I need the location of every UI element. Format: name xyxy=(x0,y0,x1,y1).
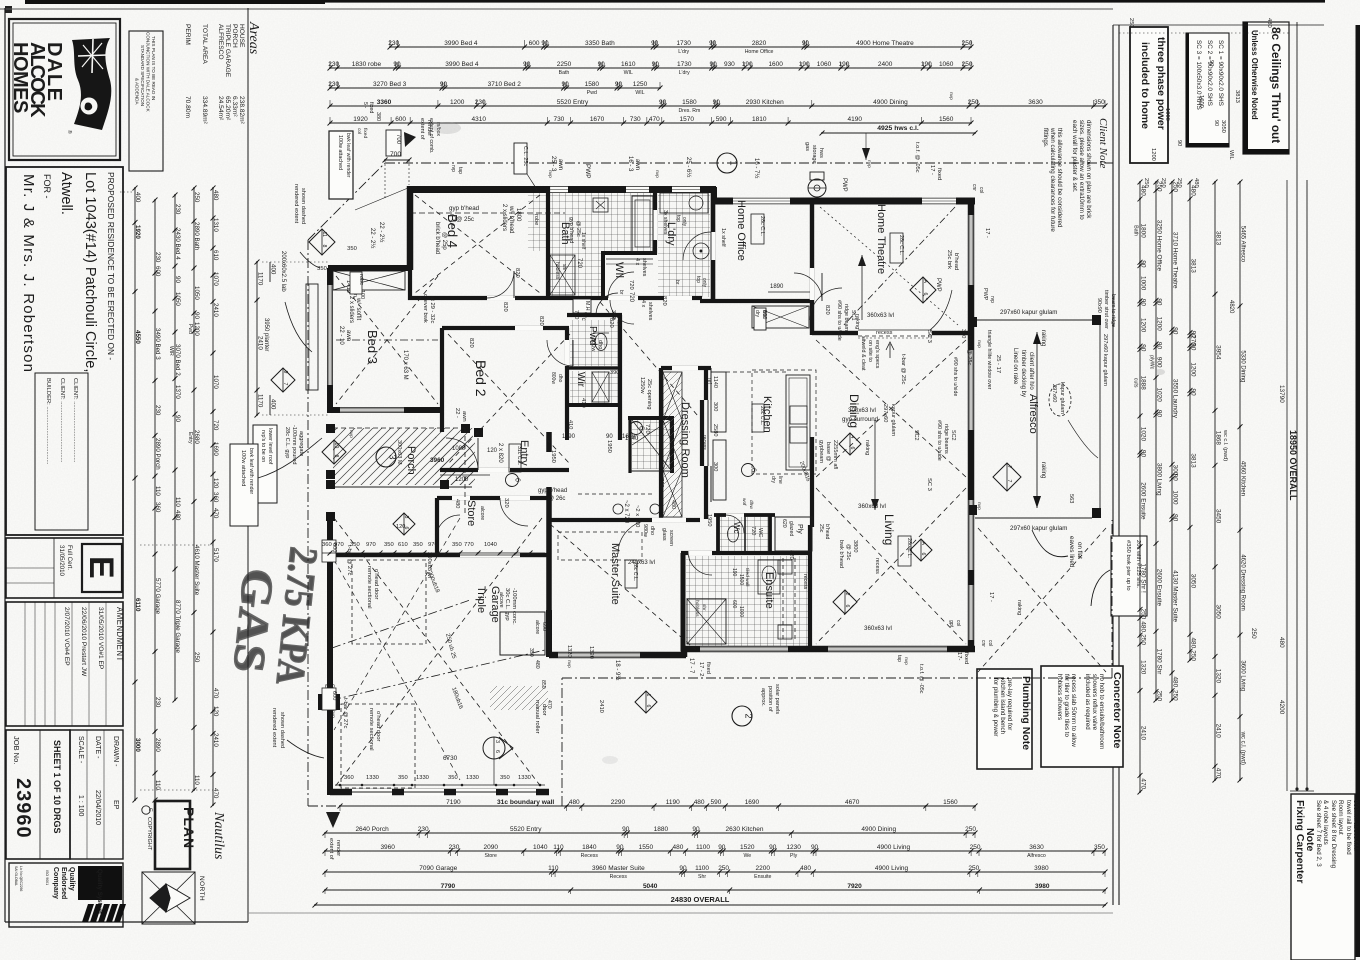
svg-text:230: 230 xyxy=(154,252,161,263)
svg-text:1: 1 xyxy=(645,694,651,697)
svg-text:90: 90 xyxy=(1172,514,1179,522)
tiles linen xyxy=(632,420,670,469)
window living bottom xyxy=(828,647,947,652)
svg-text:350: 350 xyxy=(413,542,423,548)
wall store left xyxy=(435,498,439,555)
svg-text:360x63 lvl: 360x63 lvl xyxy=(858,503,886,510)
svg-text:230: 230 xyxy=(174,204,181,215)
svg-text:600: 600 xyxy=(529,40,540,47)
svg-text:90: 90 xyxy=(1176,140,1182,146)
svg-text:this allowance should be consi: this allowance should be considered xyxy=(1056,128,1063,228)
svg-text:2 x sliders: 2 x sliders xyxy=(348,296,354,323)
svg-text:100w attached: 100w attached xyxy=(240,450,246,486)
svg-text:480: 480 xyxy=(694,799,705,806)
svg-text:towel rail to be fixed: towel rail to be fixed xyxy=(1345,800,1352,855)
svg-text:350: 350 xyxy=(452,542,462,548)
svg-text:110: 110 xyxy=(548,865,559,872)
svg-text:1610: 1610 xyxy=(621,61,636,68)
svg-text:470: 470 xyxy=(1215,768,1222,779)
svg-text:Client Note: Client Note xyxy=(1097,118,1109,169)
annot 600 boxed garage xyxy=(322,540,336,562)
svg-text:480: 480 xyxy=(534,660,540,669)
wall ho-ht divider xyxy=(810,201,814,335)
svg-text:PLAN: PLAN xyxy=(181,807,197,849)
svg-text:2600 Ensuite: 2600 Ensuite xyxy=(1156,569,1163,607)
svg-text:9: 9 xyxy=(282,371,288,374)
tiles laundry xyxy=(658,192,710,297)
svg-text:1000: 1000 xyxy=(1172,490,1179,505)
svg-text:nvp: nvp xyxy=(654,170,659,178)
svg-text:nvp: nvp xyxy=(866,160,871,168)
svg-text:t.o.f. @ -05c: t.o.f. @ -05c xyxy=(914,142,920,173)
door store xyxy=(500,498,528,526)
svg-text:1190: 1190 xyxy=(666,799,680,806)
svg-text:Full Cert.: Full Cert. xyxy=(66,545,73,570)
svg-text:Mr. J & Mrs. J. Robertson: Mr. J & Mrs. J. Robertson xyxy=(20,174,37,373)
svg-text:raking: raking xyxy=(1016,600,1022,615)
svg-text:ISO 9001: ISO 9001 xyxy=(45,870,49,885)
note box SC schedule xyxy=(1186,33,1229,147)
right dim col4 xyxy=(1189,182,1191,660)
svg-text:250: 250 xyxy=(193,652,200,663)
svg-text:28c C.L.: 28c C.L. xyxy=(759,216,765,236)
svg-text:1060: 1060 xyxy=(817,61,832,68)
svg-text:cnr: cnr xyxy=(980,640,986,647)
svg-text:4 x: 4 x xyxy=(640,300,646,307)
svg-text:nvp: nvp xyxy=(348,430,353,438)
svg-text:350: 350 xyxy=(1094,844,1105,851)
svg-text:350: 350 xyxy=(528,648,534,657)
svg-text:100w attached: 100w attached xyxy=(337,135,343,170)
window home theatre right xyxy=(969,215,974,285)
right dim col3 xyxy=(1171,182,1173,700)
svg-text:L’dry: L’dry xyxy=(678,49,689,55)
window living right2 xyxy=(969,585,974,640)
svg-text:22 - 10: 22 - 10 xyxy=(338,326,344,345)
svg-text:C.L. 25c: C.L. 25c xyxy=(522,146,528,166)
wall dressing left xyxy=(659,368,663,519)
svg-text:120: 120 xyxy=(212,478,219,489)
svg-text:client after h/o: client after h/o xyxy=(1028,352,1034,390)
svg-text:2090: 2090 xyxy=(483,844,498,851)
svg-text:L’dry: L’dry xyxy=(679,70,690,76)
svg-text:1580: 1580 xyxy=(585,81,600,88)
svg-text:110: 110 xyxy=(193,775,200,785)
svg-text:1550: 1550 xyxy=(639,844,654,851)
svg-text:1000: 1000 xyxy=(1164,108,1170,121)
master suite ceiling xyxy=(550,524,696,650)
bath vanity basin xyxy=(593,198,608,212)
svg-text:1868: 1868 xyxy=(1215,431,1222,446)
svg-text:DATE -: DATE - xyxy=(94,736,101,759)
svg-text:Room layout: Room layout xyxy=(1337,800,1344,835)
svg-text:22 - 2½: 22 - 2½ xyxy=(378,222,385,242)
svg-text:1250w: 1250w xyxy=(639,377,645,394)
svg-text:17-: 17- xyxy=(956,652,962,660)
svg-text:dry: dry xyxy=(770,476,776,483)
svg-text:2410: 2410 xyxy=(598,700,604,713)
porch bottom edge xyxy=(332,486,472,488)
svg-text:5170: 5170 xyxy=(212,548,219,562)
svg-text:3450: 3450 xyxy=(1215,509,1222,524)
stamp 2.75 KPA GAS xyxy=(223,540,327,687)
svg-text:590: 590 xyxy=(716,116,727,123)
svg-text:2890 Bath: 2890 Bath xyxy=(193,222,200,251)
annot garage beams xyxy=(426,571,440,594)
svg-text:eaves lined: eaves lined xyxy=(1068,536,1075,568)
svg-text:2 x sliders: 2 x sliders xyxy=(501,204,507,231)
svg-text:line: line xyxy=(777,476,783,484)
svg-text:970: 970 xyxy=(428,542,438,548)
svg-text:980w: 980w xyxy=(642,524,648,537)
wall pwd wir block xyxy=(567,313,622,317)
svg-text:recess: recess xyxy=(701,435,707,450)
svg-text:DRAWN -: DRAWN - xyxy=(112,736,119,767)
annot 100w attached box2 xyxy=(230,444,258,526)
svg-text:2430 Bed 4: 2430 Bed 4 xyxy=(174,228,181,260)
wc pan xyxy=(728,526,739,542)
svg-text:6: 6 xyxy=(849,447,855,450)
svg-text:480: 480 xyxy=(1190,637,1197,648)
svg-text:5465 Alfresco: 5465 Alfresco xyxy=(1240,226,1246,263)
svg-text:1200: 1200 xyxy=(1190,362,1197,377)
svg-text:1920: 1920 xyxy=(353,116,368,123)
svg-text:render: render xyxy=(335,840,341,856)
wall home theatre bottom xyxy=(812,331,973,335)
svg-text:1330: 1330 xyxy=(416,775,429,781)
svg-text:590: 590 xyxy=(711,799,722,806)
svg-text:25 - 6½: 25 - 6½ xyxy=(685,157,692,177)
svg-text:350: 350 xyxy=(350,542,360,548)
tiles wc xyxy=(720,517,769,552)
svg-text:@ 25c: @ 25c xyxy=(845,544,851,560)
svg-text:CONJUNCTION WITH DALE ALCOCK: CONJUNCTION WITH DALE ALCOCK xyxy=(146,32,151,113)
svg-text:M.H: M.H xyxy=(584,301,590,311)
tiles wir xyxy=(570,371,618,403)
svg-text:238.82m²: 238.82m² xyxy=(238,96,245,125)
svg-text:360x63 lvl: 360x63 lvl xyxy=(864,625,892,632)
svg-text:extent of: extent of xyxy=(419,118,425,140)
wall bed4 left exterior xyxy=(407,186,414,270)
svg-text:1888: 1888 xyxy=(1140,376,1147,391)
svg-text:raking: raking xyxy=(854,314,860,329)
annot cl 25c boxed xyxy=(514,143,527,174)
svg-text:shelves: shelves xyxy=(641,258,647,277)
svg-text:2410: 2410 xyxy=(212,733,219,747)
svg-text:820: 820 xyxy=(514,268,520,278)
svg-text:dimensions shown on plan are b: dimensions shown on plan are brick xyxy=(1085,120,1092,219)
powder vanity wc xyxy=(595,334,607,351)
svg-text:4900 Dining: 4900 Dining xyxy=(861,826,896,833)
svg-text:4620 Dressing Room: 4620 Dressing Room xyxy=(1240,554,1246,610)
svg-text:FOR -: FOR - xyxy=(42,174,52,199)
svg-text:6.33m²: 6.33m² xyxy=(231,96,238,117)
svg-text:shr: shr xyxy=(561,264,567,271)
wall laundry-ho divider xyxy=(711,189,716,301)
svg-text:& ADDENDA: & ADDENDA xyxy=(135,78,140,105)
wall wil left xyxy=(601,253,605,300)
svg-text:5520 Entry: 5520 Entry xyxy=(510,826,542,833)
svg-text:3050: 3050 xyxy=(1215,605,1222,620)
svg-text:2600 Ensuite: 2600 Ensuite xyxy=(1140,482,1147,520)
svg-text:1320: 1320 xyxy=(1140,660,1147,675)
svg-text:31c boundary wall: 31c boundary wall xyxy=(497,799,554,806)
svg-text:120: 120 xyxy=(487,448,498,454)
svg-text:gas: gas xyxy=(804,142,810,151)
laundry trough xyxy=(660,193,708,213)
window ensuite bottom xyxy=(700,647,788,652)
svg-text:8c Ceilings Thru' out: 8c Ceilings Thru' out xyxy=(1269,27,1283,143)
svg-text:3250 Home Office: 3250 Home Office xyxy=(1156,220,1163,272)
wall corridor top y298 xyxy=(548,296,702,300)
svg-text:gpt: gpt xyxy=(948,620,954,628)
wir robe shelves xyxy=(592,372,609,402)
svg-text:3630: 3630 xyxy=(1029,844,1044,851)
svg-text:17 -: 17 - xyxy=(929,165,935,175)
corridor diagonal xyxy=(600,302,698,416)
svg-text:shr: shr xyxy=(701,604,707,611)
small detector circles xyxy=(630,422,643,435)
svg-text:rvp: rvp xyxy=(989,296,995,303)
svg-text:4130 Master Suite: 4130 Master Suite xyxy=(1172,570,1179,622)
window bath top 25-3 xyxy=(549,186,568,193)
svg-text:raking: raking xyxy=(864,440,870,455)
svg-text:wof: wof xyxy=(741,498,747,506)
svg-text:2890: 2890 xyxy=(154,738,161,752)
svg-text:90: 90 xyxy=(1172,327,1179,335)
svg-text:400: 400 xyxy=(270,264,277,275)
title block outer verticals xyxy=(4,8,6,922)
svg-text:350: 350 xyxy=(500,775,510,781)
svg-text:o'head door: o'head door xyxy=(375,711,381,742)
svg-text:2/07/2010 VO#4 EP: 2/07/2010 VO#4 EP xyxy=(63,607,70,666)
svg-text:2 x 820: 2 x 820 xyxy=(497,443,503,463)
bwk pier note box xyxy=(1111,536,1147,616)
svg-text:HOMES: HOMES xyxy=(9,42,31,113)
svg-text:awn: awn xyxy=(345,330,351,341)
ensuite hobless shower xyxy=(687,599,726,644)
wall master suite left lower xyxy=(546,610,552,657)
tag triangle 3-6 garage xyxy=(483,737,505,759)
svg-text:1830 robe: 1830 robe xyxy=(352,61,382,68)
svg-text:1330: 1330 xyxy=(366,775,379,781)
garage door openings bottom xyxy=(352,789,392,796)
svg-text:recess slab 50mm to allow: recess slab 50mm to allow xyxy=(1070,674,1077,747)
quality logo chevrons xyxy=(82,904,94,922)
svg-text:1230: 1230 xyxy=(786,844,801,851)
svg-text:top: top xyxy=(675,215,681,222)
svg-text:700: 700 xyxy=(390,151,401,158)
svg-text:SC 3: SC 3 xyxy=(926,330,932,343)
svg-text:Lot 1043(#14) Patchouli Circle: Lot 1043(#14) Patchouli Circle, xyxy=(82,172,98,372)
svg-text:300: 300 xyxy=(712,462,718,471)
svg-text:nvp: nvp xyxy=(903,657,908,665)
svg-text:820: 820 xyxy=(608,318,614,328)
svg-text:820: 820 xyxy=(824,305,830,315)
svg-text:1730: 1730 xyxy=(676,40,691,47)
svg-text:when calculating clearances fo: when calculating clearances for future xyxy=(1049,127,1056,232)
svg-text:col: col xyxy=(955,620,961,626)
svg-text:t-bar @ 25c: t-bar @ 25c xyxy=(900,354,906,384)
svg-text:fittings.: fittings. xyxy=(1042,128,1049,148)
svg-text:5520 Entry: 5520 Entry xyxy=(557,99,589,106)
svg-text:7: 7 xyxy=(1006,480,1012,483)
left dim colF planter dims xyxy=(256,262,258,415)
svg-text:90: 90 xyxy=(1213,120,1219,126)
svg-text:Plumbing Note: Plumbing Note xyxy=(1020,676,1032,750)
svg-text:3990 Bed 4: 3990 Bed 4 xyxy=(444,40,478,47)
svg-text:fixed: fixed xyxy=(936,168,942,180)
window dining hilite right xyxy=(969,350,974,430)
svg-text:3550 Laundry: 3550 Laundry xyxy=(1172,379,1179,419)
garage pier block left xyxy=(318,694,340,710)
svg-text:6: 6 xyxy=(922,293,928,296)
svg-text:CLIENT: ......................: CLIENT: ................................… xyxy=(59,378,65,463)
svg-text:gyp surround: gyp surround xyxy=(842,416,879,423)
svg-text:4900 Living: 4900 Living xyxy=(877,844,911,851)
mh box xyxy=(573,299,591,313)
dining ceiling cross xyxy=(816,340,966,477)
svg-text:SC2: SC2 xyxy=(950,430,956,441)
top dim chain row1 xyxy=(390,46,971,48)
svg-text:3270 Bed 3: 3270 Bed 3 xyxy=(373,81,407,88)
svg-text:700: 700 xyxy=(395,134,401,145)
svg-text:PWP: PWP xyxy=(841,178,847,192)
svg-text:820: 820 xyxy=(538,316,544,326)
svg-text:820: 820 xyxy=(502,302,508,312)
svg-text:350: 350 xyxy=(347,246,357,252)
svg-text:820: 820 xyxy=(661,296,667,306)
client builder box xyxy=(35,373,88,530)
svg-text:Recess: Recess xyxy=(610,874,628,880)
svg-text:Store: Store xyxy=(485,853,498,859)
svg-text:1690: 1690 xyxy=(745,799,760,806)
svg-text:approx.: approx. xyxy=(760,688,766,707)
svg-text:wc c.l. (pwd): wc c.l. (pwd) xyxy=(1222,429,1228,461)
svg-text:Triple: Triple xyxy=(475,586,487,613)
svg-text:glazed: glazed xyxy=(788,521,794,536)
svg-text:110: 110 xyxy=(174,497,181,507)
annot 100w attached box1 xyxy=(329,131,353,199)
svg-text:25 - 17: 25 - 17 xyxy=(995,355,1001,373)
svg-text:3050: 3050 xyxy=(1220,120,1226,133)
bed4 gyp bhead dashed line xyxy=(410,212,565,214)
svg-text:Dres. Rm: Dres. Rm xyxy=(678,108,700,114)
svg-text:3600 Living: 3600 Living xyxy=(1240,660,1246,691)
svg-text:fixed: fixed xyxy=(705,662,711,674)
svg-text:1x shelf: 1x shelf xyxy=(580,232,586,250)
wall entry right x577 lower xyxy=(576,418,578,470)
svg-text:4200: 4200 xyxy=(1278,700,1285,715)
wall wc block xyxy=(716,515,720,553)
remote door dashed rect xyxy=(341,704,415,788)
svg-text:THIS PLAN IS TO BE READ IN: THIS PLAN IS TO BE READ IN xyxy=(151,36,156,100)
wall bed3-entry connector xyxy=(441,410,443,434)
wall garage bottom xyxy=(330,789,549,796)
svg-text:kapur glulam: kapur glulam xyxy=(890,404,896,436)
svg-text:610: 610 xyxy=(212,250,219,261)
svg-text:1200: 1200 xyxy=(1156,317,1163,332)
svg-text:Wir: Wir xyxy=(575,372,586,388)
svg-text:t-bar @ 25c: t-bar @ 25c xyxy=(966,336,972,366)
svg-text:350: 350 xyxy=(384,542,394,548)
svg-text:bwk b'head: bwk b'head xyxy=(838,540,844,568)
svg-text:br: br xyxy=(618,290,624,295)
svg-text:3800 Living: 3800 Living xyxy=(1156,463,1163,496)
left dotted leaders xyxy=(262,261,330,263)
tiles powder room xyxy=(570,320,618,366)
wall entry top bed2 bottom xyxy=(440,468,569,472)
svg-text:for plumbing & power: for plumbing & power xyxy=(992,678,999,736)
north arrow box xyxy=(142,872,195,924)
alcove master suite xyxy=(500,612,545,655)
svg-text:3813: 3813 xyxy=(1234,90,1240,103)
svg-text:10: 10 xyxy=(333,443,339,449)
svg-text:recess: recess xyxy=(874,558,880,574)
svg-text:1: 1 xyxy=(729,160,739,165)
project box proposed residence xyxy=(6,167,123,535)
svg-text:ridge beam: ridge beam xyxy=(843,304,849,331)
svg-text:3980: 3980 xyxy=(1034,865,1049,872)
svg-text:Bath: Bath xyxy=(559,70,570,76)
svg-text:600: 600 xyxy=(731,600,737,609)
overall dim line right xyxy=(1296,22,1298,791)
svg-text:850: 850 xyxy=(540,680,546,689)
svg-text:970: 970 xyxy=(366,542,376,548)
wall ensuite right xyxy=(808,525,812,651)
right dim col2 xyxy=(1155,182,1157,700)
dim 13790 xyxy=(1286,180,1288,791)
svg-text:fixed: fixed xyxy=(368,102,374,113)
svg-text:Company: Company xyxy=(52,867,59,899)
svg-text:1070: 1070 xyxy=(212,375,219,389)
svg-text:25c: 25c xyxy=(818,524,824,533)
svg-text:8: 8 xyxy=(333,455,339,458)
svg-text:& 4 robe layouts: & 4 robe layouts xyxy=(1322,800,1329,845)
svg-text:1020: 1020 xyxy=(1156,388,1163,403)
svg-text:250: 250 xyxy=(1160,178,1166,188)
wall garage top xyxy=(330,553,549,557)
svg-text:pre-lay required for: pre-lay required for xyxy=(1006,678,1013,730)
home office robe xyxy=(752,306,809,328)
svg-text:65.20m²: 65.20m² xyxy=(224,96,231,121)
bottom overall dim xyxy=(315,904,1105,906)
svg-text:#350 bwk pier up to: #350 bwk pier up to xyxy=(1125,540,1131,591)
svg-text:3: 3 xyxy=(494,740,500,743)
svg-text:90: 90 xyxy=(1172,474,1179,482)
svg-text:2290: 2290 xyxy=(611,799,626,806)
svg-text:7: 7 xyxy=(1006,466,1012,469)
svg-text:recess: recess xyxy=(876,330,893,336)
svg-text:3954: 3954 xyxy=(1215,345,1222,360)
bottom dim chain rowE xyxy=(325,889,1105,891)
svg-text:17 -: 17 - xyxy=(984,228,990,238)
wall master suite left upper xyxy=(547,495,551,612)
svg-text:1200: 1200 xyxy=(455,477,469,483)
wall bed2 left xyxy=(440,328,444,432)
svg-text:3360: 3360 xyxy=(377,99,392,106)
svg-text:nvp: nvp xyxy=(976,340,981,348)
svg-text:Recess: Recess xyxy=(581,853,599,859)
svg-text:5 -: 5 - xyxy=(362,102,368,108)
annot 700 boxed xyxy=(386,130,401,156)
svg-text:Lic No QEC2266: Lic No QEC2266 xyxy=(19,866,23,892)
svg-text:28c C.L. gyp: 28c C.L. gyp xyxy=(284,427,290,458)
wall kitchen-passage y470 xyxy=(700,469,814,471)
svg-text:4560 Kitchen: 4560 Kitchen xyxy=(1240,461,1246,496)
svg-text:2255mm afl: 2255mm afl xyxy=(832,440,838,469)
svg-text:7190: 7190 xyxy=(446,799,461,806)
